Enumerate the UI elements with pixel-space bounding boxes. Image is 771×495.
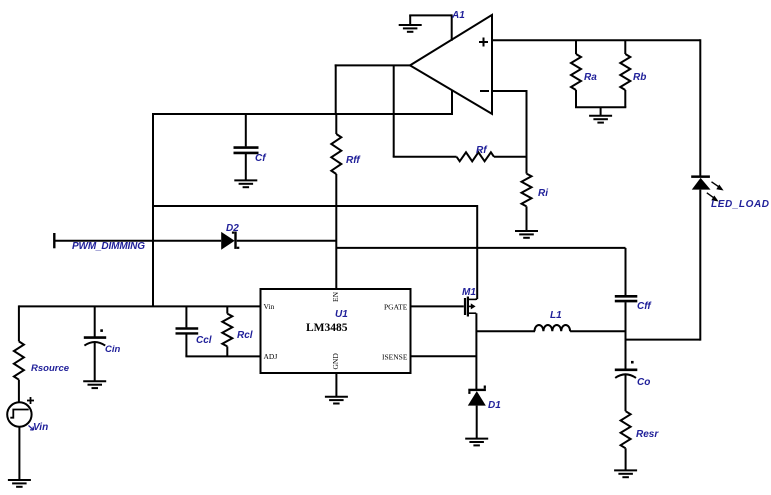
wire (L1 to Cff node): [570, 330, 625, 332]
inductor L1: [535, 325, 571, 331]
wire (PGATE to M1 gate): [411, 305, 464, 307]
wire (M1 top to x477 line): [475, 298, 477, 300]
wire (M1 drain down): [475, 313, 477, 389]
wire (- input going right): [492, 90, 527, 92]
wire (LED rail bottom): [699, 190, 701, 341]
svg-text:D2: D2: [226, 223, 239, 234]
svg-text:Co: Co: [637, 377, 650, 388]
svg-text:EN: EN: [331, 291, 340, 302]
wire (ISENSE wire): [411, 355, 477, 357]
svg-text:ISENSE: ISENSE: [382, 353, 408, 362]
wire (node to LED rail y=339.6): [626, 339, 701, 341]
source Vin (pulse source): [7, 397, 34, 427]
wire (Ra-Rb bottom bar): [575, 106, 626, 108]
svg-text:Rf: Rf: [476, 145, 488, 156]
svg-text:L1: L1: [550, 310, 562, 321]
svg-text:Resr: Resr: [636, 429, 659, 440]
transistor M1: [464, 297, 476, 317]
ground (Vin source): [8, 480, 31, 487]
svg-text:Cf: Cf: [255, 153, 267, 164]
resistor Rff: [331, 114, 341, 174]
svg-text:Rb: Rb: [633, 72, 646, 83]
capacitor Ccl: [176, 306, 199, 356]
svg-text:A1: A1: [451, 10, 465, 21]
port PWM_DIMMING: [53, 233, 55, 248]
wire (x=477 down from rail): [476, 205, 478, 299]
resistor Rb: [620, 40, 630, 107]
svg-text:D1: D1: [488, 400, 501, 411]
ground (op-amp A1 power): [399, 15, 422, 31]
svg-text:Ra: Ra: [584, 72, 597, 83]
wire (Rf up to output wire): [393, 65, 395, 156]
svg-text:Rcl: Rcl: [237, 330, 253, 341]
capacitor Co (polarized): [615, 361, 638, 411]
ground (D1): [465, 439, 488, 446]
svg-text:PWM_DIMMING: PWM_DIMMING: [72, 241, 145, 252]
wire (rail y=114): [153, 113, 452, 115]
ground (Ra/Rb divider): [589, 107, 612, 122]
capacitor Cff: [615, 248, 638, 369]
svg-text:PGATE: PGATE: [384, 303, 408, 312]
wire (left rail x=153): [152, 113, 154, 306]
svg-text:Cin: Cin: [105, 344, 121, 355]
wire (D2 cathode to EN line): [237, 240, 337, 242]
wire (down to Rf/Ri node): [526, 90, 528, 158]
op-amp U1 (LM3485 controller box): [261, 289, 411, 373]
diode D2: [221, 232, 239, 250]
svg-text:Vin: Vin: [33, 422, 48, 433]
wire (output from vertex going left): [335, 64, 410, 66]
svg-text:Ri: Ri: [538, 188, 548, 199]
ground (Resr): [614, 470, 637, 477]
diode D1: [468, 386, 486, 406]
resistor Ra: [571, 40, 581, 107]
wire (Vin source down): [18, 427, 20, 480]
svg-text:Rsource: Rsource: [31, 363, 70, 374]
resistor Rf: [393, 152, 527, 161]
LED LED_LOAD: [691, 175, 723, 201]
wire (PWM to D2 anode): [54, 240, 221, 242]
wire (LED rail top): [699, 39, 701, 175]
capacitor Cin (polarized): [84, 306, 106, 381]
svg-text:Rff: Rff: [346, 155, 361, 166]
svg-text:ADJ: ADJ: [264, 352, 278, 361]
svg-text:Vin: Vin: [264, 302, 275, 311]
wire (Rff bottom down to EN pin): [335, 174, 337, 290]
svg-text:U1: U1: [335, 309, 348, 320]
wire (Vin rail y=306.4): [19, 305, 261, 307]
wire (A1 ground to V+ pin): [409, 14, 452, 16]
svg-text:Cff: Cff: [637, 301, 652, 312]
svg-text:LED_LOAD: LED_LOAD: [711, 199, 769, 210]
label Vin (source): [29, 422, 49, 433]
wire (A1 V- pin vertical): [451, 90, 453, 115]
resistor Ri: [522, 157, 532, 231]
wire (D1 to ground): [476, 406, 478, 439]
wire (ADJ wire y=356.4): [185, 355, 260, 357]
wire (A1 V+ pin vertical): [451, 14, 453, 40]
svg-text:GND: GND: [331, 353, 340, 370]
capacitor Cf: [234, 114, 259, 180]
ground (Cf): [234, 180, 257, 187]
wire (rail y=206): [153, 205, 477, 207]
resistor Rsource: [14, 305, 24, 402]
ground (Cin): [83, 381, 106, 388]
wire (GND pin): [335, 373, 337, 397]
ground (Ri): [515, 231, 538, 238]
ground (U1 GND): [325, 397, 348, 404]
wire (output down to rail): [335, 64, 337, 114]
resistor Rcl: [222, 306, 232, 356]
resistor Resr: [621, 411, 631, 470]
op-amp A1: [410, 15, 492, 114]
wire (+ input to right rail): [492, 39, 700, 41]
svg-text:Ccl: Ccl: [196, 335, 212, 346]
svg-text:M1: M1: [462, 287, 476, 298]
wire (y=248 to Cff): [336, 247, 625, 249]
svg-text:LM3485: LM3485: [306, 322, 348, 334]
wire (switch node to L1): [476, 330, 535, 332]
